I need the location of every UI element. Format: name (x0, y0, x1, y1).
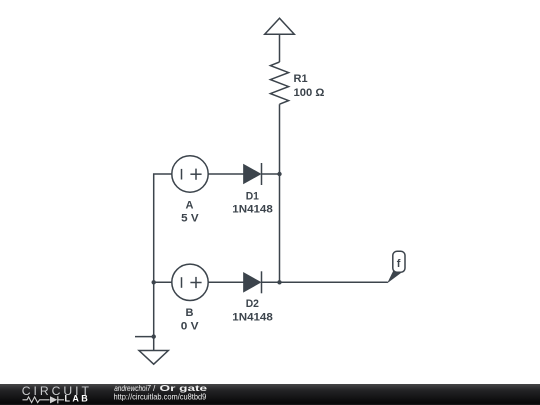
svg-text:0 V: 0 V (181, 321, 200, 333)
svg-text:LAB: LAB (65, 394, 91, 404)
footer bar (0, 384, 540, 405)
wire: output to flag f (280, 281, 388, 283)
svg-text:D1: D1 (246, 191, 259, 203)
wire: row A left segment and left column (154, 174, 172, 351)
wire: row B left segment (154, 281, 172, 283)
flag f (387, 271, 401, 284)
node: junction D2/output column (277, 280, 281, 284)
resistor R1 (270, 62, 288, 104)
node: junction D1/output column (277, 172, 281, 176)
wire: V+ to R1 (279, 34, 281, 62)
wire: D1 to output column (262, 173, 280, 175)
node: junction left column row B (152, 280, 156, 284)
svg-text:http://circuitlab.com/cu8tbd9: http://circuitlab.com/cu8tbd9 (114, 393, 207, 402)
logo resistor zigzag (23, 397, 50, 403)
node: junction left column ground (152, 334, 156, 338)
svg-text:5 V: 5 V (181, 212, 199, 224)
svg-text:R1: R1 (294, 73, 308, 85)
wire: R1 to output column (279, 104, 281, 282)
ground (139, 351, 168, 365)
logo diode (50, 396, 57, 403)
wire: source A to D1 (208, 173, 244, 175)
voltage source B (172, 264, 208, 300)
svg-text:1N4148: 1N4148 (232, 203, 272, 215)
voltage source A (172, 156, 208, 192)
svg-text:1N4148: 1N4148 (232, 311, 272, 323)
wire: D2 to output column (262, 281, 280, 283)
diode D1 (244, 165, 260, 183)
svg-text:100 Ω: 100 Ω (294, 87, 325, 99)
wire: stub at ground junction (135, 336, 154, 338)
wire: source B to D2 (208, 281, 244, 283)
svg-text:D2: D2 (246, 298, 259, 310)
svg-text:f: f (397, 258, 401, 270)
power supply V+ (265, 18, 295, 34)
svg-text:B: B (186, 307, 194, 319)
svg-text:A: A (186, 200, 194, 212)
diode D2 (244, 273, 260, 291)
svg-text:andrewchoi7: andrewchoi7 (114, 384, 151, 393)
